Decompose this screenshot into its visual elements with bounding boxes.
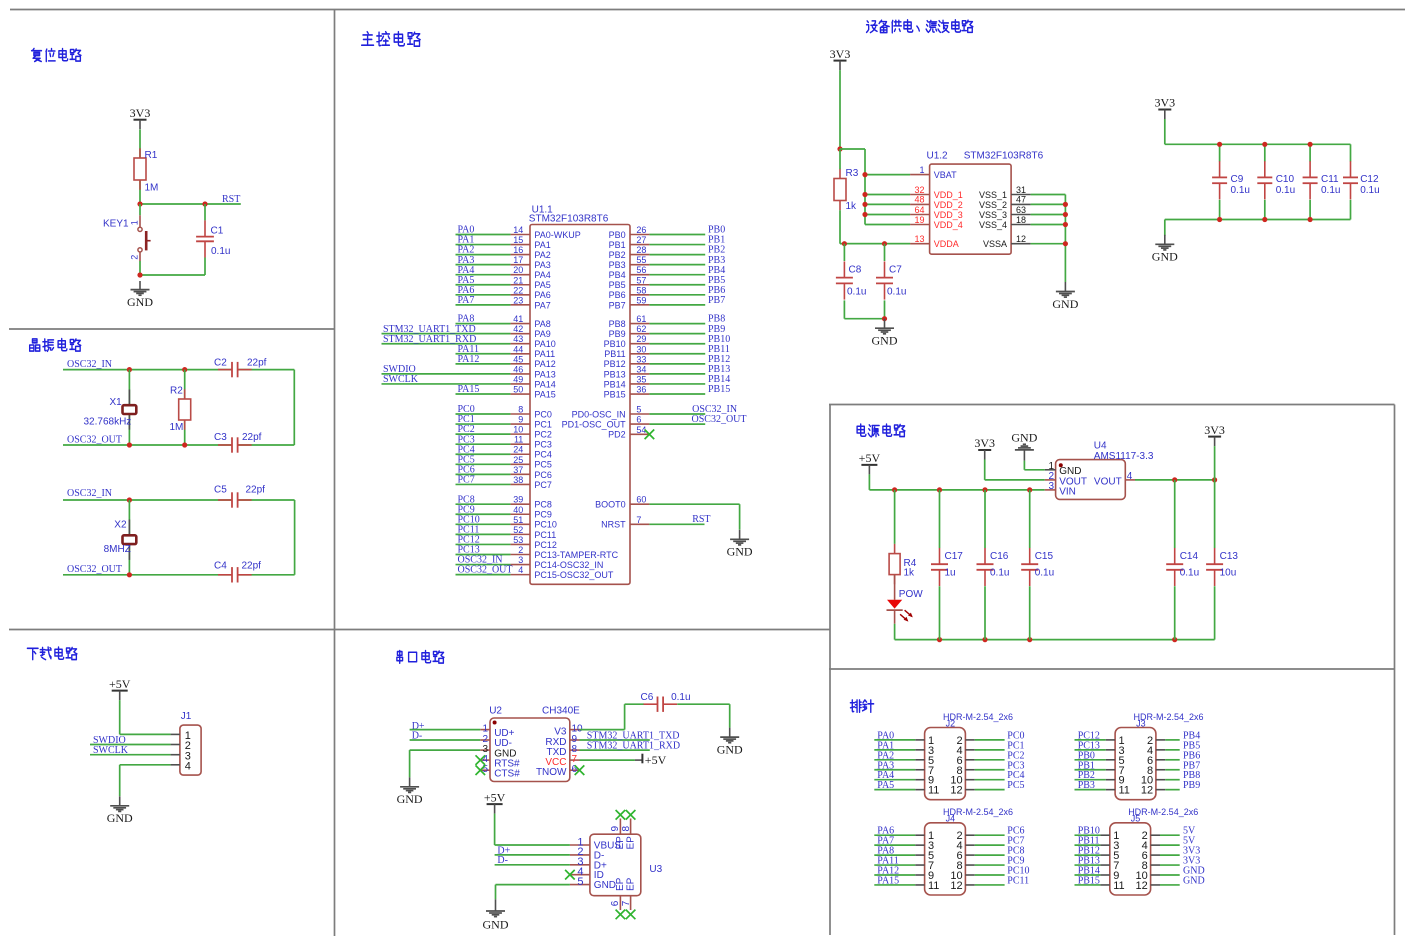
svg-text:PA14: PA14 [534,379,555,389]
svg-text:EP: EP [615,836,626,850]
svg-text:C14: C14 [1180,551,1199,562]
svg-text:5: 5 [636,405,641,415]
svg-text:22: 22 [513,285,523,295]
svg-text:8: 8 [518,405,523,415]
svg-text:+5V: +5V [859,451,881,465]
svg-text:51: 51 [513,515,523,525]
svg-text:40: 40 [513,505,523,515]
svg-text:CTS#: CTS# [494,768,520,779]
svg-text:30: 30 [636,344,646,354]
svg-text:VDD_1: VDD_1 [934,190,963,200]
svg-text:PA1: PA1 [534,240,550,250]
svg-text:0.1u: 0.1u [887,287,906,298]
svg-text:VSS_1: VSS_1 [979,190,1007,200]
svg-text:11: 11 [928,880,939,892]
svg-text:VDD_3: VDD_3 [934,210,963,220]
svg-text:44: 44 [513,344,523,354]
svg-text:22pf: 22pf [246,485,266,496]
svg-text:GND: GND [1052,297,1078,311]
svg-text:58: 58 [636,285,646,295]
svg-text:J5: J5 [1131,814,1141,824]
svg-text:PC2: PC2 [534,430,552,440]
svg-text:49: 49 [513,374,523,384]
svg-text:17: 17 [513,255,523,265]
svg-text:C15: C15 [1035,551,1054,562]
svg-text:STM32_UART1_RXD: STM32_UART1_RXD [587,741,680,752]
svg-text:C7: C7 [889,265,902,276]
svg-text:PA11: PA11 [534,349,555,359]
svg-text:3V3: 3V3 [1154,96,1175,110]
svg-text:PB8: PB8 [609,319,626,329]
svg-text:0.1u: 0.1u [990,567,1009,578]
svg-text:PC7: PC7 [534,480,552,490]
svg-text:CH340E: CH340E [542,705,580,716]
svg-text:J2: J2 [946,718,956,728]
svg-text:PB12: PB12 [604,359,626,369]
svg-text:1: 1 [130,220,140,225]
svg-text:PB15: PB15 [708,384,730,395]
svg-text:0.1u: 0.1u [847,287,866,298]
svg-text:C11: C11 [1321,174,1339,185]
svg-text:PA7: PA7 [458,295,475,306]
svg-text:0.1u: 0.1u [1180,567,1199,578]
svg-text:PA8: PA8 [534,319,550,329]
svg-text:11: 11 [1119,785,1130,797]
svg-text:4: 4 [185,760,191,772]
svg-text:C6: C6 [641,692,654,703]
svg-text:10: 10 [513,425,523,435]
svg-text:PC4: PC4 [534,450,552,460]
svg-text:C1: C1 [211,226,224,237]
svg-text:3V3: 3V3 [130,106,151,120]
svg-text:PB9: PB9 [609,329,626,339]
svg-text:R3: R3 [846,168,859,179]
svg-text:8MHZ: 8MHZ [104,544,131,555]
svg-text:PC13-TAMPER-RTC: PC13-TAMPER-RTC [534,550,618,560]
svg-text:18: 18 [1016,215,1026,225]
svg-text:29: 29 [636,334,646,344]
svg-text:45: 45 [513,354,523,364]
svg-text:VDD_4: VDD_4 [934,220,963,230]
svg-text:3: 3 [1048,481,1054,492]
svg-text:0.1u: 0.1u [1035,567,1054,578]
svg-text:12: 12 [950,785,962,797]
svg-text:PB7: PB7 [609,300,626,310]
svg-text:8: 8 [621,826,632,832]
svg-text:19: 19 [914,215,924,225]
svg-text:1M: 1M [145,183,159,194]
svg-text:PD2: PD2 [608,430,626,440]
svg-text:PC12: PC12 [534,540,557,550]
svg-text:VSS_2: VSS_2 [979,200,1007,210]
svg-text:VSSA: VSSA [983,239,1007,249]
svg-text:+5V: +5V [109,677,131,691]
svg-text:SWCLK: SWCLK [383,374,419,385]
svg-text:63: 63 [1016,205,1026,215]
svg-text:PB1: PB1 [609,240,626,250]
svg-text:EP: EP [626,877,637,891]
svg-text:35: 35 [636,374,646,384]
svg-text:J1: J1 [181,711,192,722]
svg-text:11: 11 [514,435,523,445]
svg-text:PA5: PA5 [534,280,550,290]
svg-text:PC10: PC10 [534,520,557,530]
svg-text:PA10: PA10 [534,339,555,349]
svg-text:1k: 1k [846,201,858,212]
svg-text:PB15: PB15 [1078,875,1100,886]
svg-text:PB15: PB15 [604,389,626,399]
svg-text:PC9: PC9 [534,510,552,520]
svg-text:GND: GND [127,295,153,309]
svg-text:0.1u: 0.1u [1231,185,1250,196]
svg-text:X1: X1 [110,397,123,408]
svg-text:0.1u: 0.1u [1321,185,1340,196]
svg-text:22pf: 22pf [242,432,262,443]
svg-text:0.1u: 0.1u [1360,185,1379,196]
svg-text:PB4: PB4 [609,270,626,280]
svg-text:C13: C13 [1220,551,1239,562]
svg-text:57: 57 [636,275,646,285]
svg-text:24: 24 [513,445,523,455]
svg-text:3V3: 3V3 [974,436,995,450]
svg-text:C10: C10 [1276,174,1295,185]
svg-text:STM32F103R8T6: STM32F103R8T6 [529,213,609,224]
svg-text:AMS1117-3.3: AMS1117-3.3 [1094,451,1154,462]
svg-text:20: 20 [513,265,523,275]
svg-text:PB3: PB3 [1078,780,1095,791]
svg-text:32.768kHz: 32.768kHz [84,417,132,428]
svg-text:OSC32_OUT: OSC32_OUT [692,414,747,425]
svg-text:EP: EP [615,877,626,891]
svg-text:+5V: +5V [484,790,506,804]
svg-text:PC8: PC8 [534,500,552,510]
svg-text:61: 61 [636,314,646,324]
svg-text:VDDA: VDDA [934,239,959,249]
svg-text:J4: J4 [946,814,956,824]
svg-text:42: 42 [513,324,523,334]
svg-text:2: 2 [518,545,523,555]
svg-text:VSS_3: VSS_3 [979,210,1007,220]
svg-text:50: 50 [513,385,523,395]
svg-text:KEY1: KEY1 [103,219,129,230]
svg-text:GND: GND [483,918,509,932]
svg-text:12: 12 [1016,234,1026,244]
svg-text:48: 48 [914,195,924,205]
svg-text:PC0: PC0 [534,409,552,419]
svg-text:6: 6 [610,900,621,906]
svg-text:GND: GND [727,545,753,559]
svg-text:GND: GND [872,334,898,348]
svg-text:VSS_4: VSS_4 [979,220,1007,230]
svg-text:PA15: PA15 [534,389,555,399]
svg-text:GND: GND [717,743,743,757]
svg-text:VBAT: VBAT [934,170,957,180]
svg-text:1: 1 [919,165,924,175]
svg-text:RST: RST [222,194,240,205]
svg-text:U2: U2 [489,705,502,716]
svg-text:PA4: PA4 [534,270,550,280]
svg-text:GND: GND [397,792,423,806]
svg-text:11: 11 [928,785,939,797]
svg-text:62: 62 [636,324,646,334]
svg-text:BOOT0: BOOT0 [595,500,626,510]
svg-text:C4: C4 [214,560,227,571]
svg-text:26: 26 [636,225,646,235]
svg-text:41: 41 [513,314,523,324]
svg-text:12: 12 [1141,785,1153,797]
svg-text:PC15-OSC32_OUT: PC15-OSC32_OUT [534,570,614,580]
svg-text:1: 1 [482,724,488,735]
svg-text:OSC32_IN: OSC32_IN [67,488,112,499]
svg-text:43: 43 [513,334,523,344]
svg-text:12: 12 [950,880,962,892]
svg-text:0.1u: 0.1u [1276,185,1295,196]
svg-text:PB3: PB3 [609,260,626,270]
svg-text:PB0: PB0 [609,230,626,240]
svg-text:PC6: PC6 [534,470,552,480]
svg-text:1u: 1u [945,567,956,578]
svg-text:PA6: PA6 [534,290,550,300]
svg-text:5: 5 [577,876,583,888]
svg-text:PB14: PB14 [604,379,626,389]
svg-text:GND: GND [1011,431,1037,445]
svg-text:7: 7 [636,515,641,525]
svg-text:12: 12 [1136,880,1148,892]
svg-text:PD0-OSC_IN: PD0-OSC_IN [572,409,626,419]
svg-text:PC1: PC1 [534,419,552,429]
svg-text:1M: 1M [170,422,184,433]
svg-text:3V3: 3V3 [1204,423,1225,437]
svg-text:UD+: UD+ [494,728,514,739]
svg-text:PD1-OSC_OUT: PD1-OSC_OUT [562,420,627,430]
svg-text:GND: GND [1183,875,1205,886]
svg-text:15: 15 [513,235,523,245]
svg-text:OSC32_OUT: OSC32_OUT [67,435,122,446]
svg-text:PA15: PA15 [877,875,899,886]
svg-text:6: 6 [636,415,641,425]
svg-text:46: 46 [513,364,523,374]
svg-text:+5V: +5V [645,753,667,767]
svg-text:38: 38 [513,475,523,485]
svg-text:PC11: PC11 [534,530,556,540]
svg-text:4: 4 [518,565,523,575]
svg-text:36: 36 [636,385,646,395]
svg-text:PA15: PA15 [458,384,480,395]
svg-text:VDD_2: VDD_2 [934,200,963,210]
svg-text:TNOW: TNOW [536,767,567,778]
svg-text:OSC32_OUT: OSC32_OUT [67,564,122,575]
svg-text:33: 33 [636,354,646,364]
svg-text:C5: C5 [214,485,227,496]
svg-text:PA0-WKUP: PA0-WKUP [534,230,580,240]
svg-text:27: 27 [636,235,646,245]
svg-text:9: 9 [610,826,621,832]
svg-text:POW: POW [899,589,923,600]
svg-text:VIN: VIN [1059,486,1076,497]
svg-text:2: 2 [130,255,140,260]
svg-text:28: 28 [636,245,646,255]
svg-text:10u: 10u [1220,567,1237,578]
svg-text:56: 56 [636,265,646,275]
svg-text:PB13: PB13 [604,369,626,379]
svg-text:PA7: PA7 [534,300,550,310]
svg-text:22pf: 22pf [242,560,262,571]
svg-text:59: 59 [636,295,646,305]
svg-text:PB6: PB6 [609,290,626,300]
svg-text:C3: C3 [214,432,227,443]
svg-text:X2: X2 [114,520,127,531]
svg-text:C16: C16 [990,551,1009,562]
svg-text:PB10: PB10 [604,339,626,349]
svg-text:21: 21 [513,275,523,285]
svg-text:C2: C2 [214,357,227,368]
svg-text:52: 52 [513,525,523,535]
svg-text:11: 11 [1113,880,1124,892]
svg-text:U4: U4 [1094,441,1107,452]
svg-text:RST: RST [692,514,710,525]
svg-text:GND: GND [107,811,133,825]
svg-text:31: 31 [1016,185,1026,195]
svg-text:4: 4 [1127,471,1133,482]
svg-text:C9: C9 [1231,174,1244,185]
svg-text:37: 37 [513,465,523,475]
svg-text:23: 23 [513,295,523,305]
svg-text:PA13: PA13 [534,369,555,379]
svg-text:R2: R2 [170,386,183,397]
svg-text:PC14-OSC32_IN: PC14-OSC32_IN [534,560,603,570]
svg-text:PC5: PC5 [1007,780,1024,791]
svg-text:STM32F103R8T6: STM32F103R8T6 [964,150,1044,161]
svg-text:PB9: PB9 [1183,780,1200,791]
svg-text:39: 39 [513,495,523,505]
svg-text:PA3: PA3 [534,260,550,270]
svg-text:60: 60 [636,495,646,505]
svg-text:R1: R1 [145,150,158,161]
svg-text:3: 3 [518,555,523,565]
svg-text:PA2: PA2 [534,250,550,260]
svg-text:1k: 1k [904,568,916,579]
svg-text:22pf: 22pf [247,357,267,368]
svg-text:PA5: PA5 [877,780,894,791]
svg-text:OSC32_OUT: OSC32_OUT [458,565,513,576]
svg-text:3V3: 3V3 [830,47,851,61]
svg-text:U1.2: U1.2 [927,150,949,161]
svg-text:GND: GND [1152,250,1178,264]
svg-text:V3: V3 [554,727,567,738]
svg-text:16: 16 [513,245,523,255]
svg-text:55: 55 [636,255,646,265]
svg-text:PB11: PB11 [604,349,625,359]
svg-text:GND: GND [594,880,616,891]
svg-text:PA12: PA12 [534,359,555,369]
svg-text:PB5: PB5 [609,280,626,290]
svg-text:PC11: PC11 [1007,875,1029,886]
svg-text:32: 32 [914,185,924,195]
svg-text:7: 7 [621,900,632,906]
svg-text:0.1u: 0.1u [211,246,230,257]
svg-text:34: 34 [636,364,646,374]
svg-text:C17: C17 [945,551,964,562]
svg-text:9: 9 [518,415,523,425]
svg-text:EP: EP [626,836,637,850]
svg-text:J3: J3 [1136,718,1146,728]
svg-text:OSC32_IN: OSC32_IN [67,359,112,370]
svg-text:PC5: PC5 [534,460,552,470]
svg-text:PA12: PA12 [458,354,480,365]
svg-text:13: 13 [914,234,924,244]
svg-text:64: 64 [914,205,924,215]
svg-text:14: 14 [513,225,523,235]
svg-text:VOUT: VOUT [1094,476,1122,487]
svg-text:25: 25 [513,455,523,465]
svg-text:0.1u: 0.1u [671,692,690,703]
svg-text:PB2: PB2 [609,250,626,260]
svg-text:53: 53 [513,535,523,545]
svg-text:U3: U3 [649,864,662,875]
svg-text:PA9: PA9 [534,329,550,339]
svg-text:PB7: PB7 [708,295,725,306]
svg-text:47: 47 [1016,195,1026,205]
svg-text:C12: C12 [1360,174,1379,185]
svg-text:NRST: NRST [601,520,626,530]
svg-text:PC3: PC3 [534,440,552,450]
svg-text:PC7: PC7 [458,475,475,486]
svg-text:C8: C8 [849,265,862,276]
